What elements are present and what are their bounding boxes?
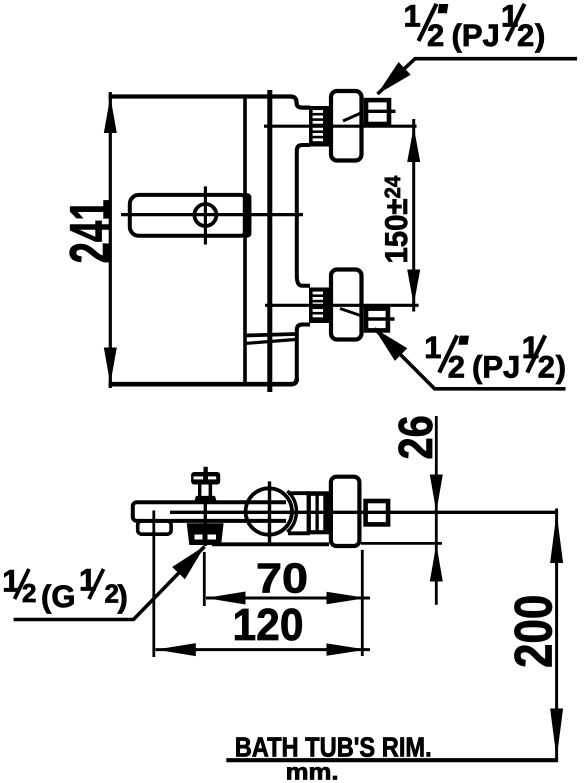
- faucet body right edge: [243, 96, 247, 384]
- svg-text:1: 1: [404, 0, 421, 34]
- svg-text:1: 1: [424, 330, 441, 365]
- handle right end cap: [243, 193, 252, 237]
- handle circle (side view): [246, 488, 292, 534]
- lower label 1/2"(PJ1/2): [424, 330, 566, 385]
- svg-text:70: 70: [256, 555, 308, 602]
- diverter axis line: [204, 501, 207, 547]
- dimension 120 line: [156, 648, 371, 651]
- lower union centerline: [265, 304, 419, 307]
- upper union lower neck: [297, 145, 310, 151]
- svg-text:2: 2: [517, 18, 534, 53]
- faucet body top edge with neck step to upper union: [109, 97, 310, 108]
- bath tub rim line: [226, 758, 557, 762]
- extension line 120 left: [152, 511, 155, 658]
- leader line G label: [14, 547, 205, 620]
- leader arrowhead lower PJ: [374, 328, 407, 361]
- handle vertical centerline (side view): [268, 481, 271, 543]
- dimension 241 top arrowhead: [104, 97, 117, 134]
- body under-profile line: [212, 542, 329, 546]
- dimension 200 line: [555, 509, 558, 763]
- handle centerline: [121, 213, 303, 216]
- svg-text:): ): [118, 579, 128, 614]
- diverter stem: [204, 467, 208, 473]
- svg-text:2: 2: [538, 350, 555, 385]
- upper union: cap body: [331, 91, 362, 161]
- dimension 26 upper arrowhead: [430, 475, 443, 513]
- svg-text:1: 1: [501, 0, 518, 34]
- svg-text:mm.: mm.: [286, 759, 339, 783]
- svg-text:200: 200: [505, 595, 564, 668]
- lower union lower neck: [297, 325, 310, 331]
- upper union hex nut: [366, 100, 389, 124]
- spout outlet step: [138, 521, 171, 534]
- svg-text:(G: (G: [41, 579, 75, 614]
- leader line upper PJ label: [378, 59, 578, 94]
- upper union chamfer line: [343, 113, 362, 122]
- dimension 70 left arrowhead: [206, 592, 246, 605]
- svg-text:(PJ: (PJ: [472, 350, 520, 385]
- svg-text:120: 120: [233, 599, 304, 650]
- handle lever (front view): [130, 195, 250, 236]
- extension line 70 left: [203, 552, 206, 606]
- lower union: upper neck: [297, 276, 310, 286]
- dimension 120 right arrowhead: [327, 643, 367, 655]
- upper union centerline: [264, 125, 417, 128]
- dimension 26 lower arrowhead: [430, 544, 443, 582]
- handle screw circle: [194, 204, 216, 226]
- faucet body bottom edge: [109, 379, 297, 385]
- label 1/2(G1/2): [2, 563, 128, 615]
- spout detail line A: [245, 334, 296, 336]
- diverter lower nut: [187, 523, 224, 545]
- leader arrowhead upper PJ: [377, 62, 411, 95]
- svg-text:1: 1: [522, 330, 539, 365]
- reference line 26 bottom: [361, 542, 442, 545]
- spout detail line B: [245, 340, 296, 344]
- svg-text:(PJ: (PJ: [452, 18, 500, 53]
- upper union: knurled ring: [309, 106, 330, 147]
- side view centerline: [170, 511, 558, 514]
- wall plate vertical line: [267, 90, 272, 392]
- leader line lower PJ label: [375, 329, 566, 389]
- diverter flange: [195, 496, 217, 501]
- lower union chamfer line: [340, 309, 362, 317]
- svg-text:2: 2: [448, 350, 465, 385]
- dimension 150 bottom arrowhead: [407, 270, 420, 306]
- lower union nut middle line: [364, 317, 395, 320]
- dimension 150+-24 line: [412, 119, 415, 312]
- svg-text:26: 26: [390, 415, 443, 459]
- svg-text:241: 241: [59, 199, 123, 263]
- dimension 241 line: [109, 92, 112, 388]
- lower union: cap body: [331, 270, 362, 340]
- leader arrowhead G label: [172, 546, 205, 579]
- spout bar body: [133, 502, 329, 521]
- handle skirt (side view): [286, 493, 310, 533]
- dimension 120 left arrowhead: [156, 643, 196, 656]
- upper union nut middle line: [364, 110, 396, 113]
- dimension 241 bottom arrowhead: [104, 348, 117, 385]
- handle screw vertical centerline: [204, 186, 207, 244]
- dimension 200 bottom arrowhead: [550, 709, 563, 759]
- supply pipe lower segment: [295, 330, 299, 382]
- handle skirt arc: [287, 491, 296, 532]
- svg-text:): ): [556, 350, 566, 385]
- side hex nut: [366, 501, 389, 524]
- svg-text:2: 2: [427, 18, 444, 53]
- diverter legs: [198, 485, 201, 497]
- dimension 26 line: [435, 416, 438, 605]
- side cap body: [331, 477, 360, 546]
- dimension 70 line: [206, 597, 370, 600]
- diverter T-cap: [191, 472, 220, 485]
- side knurled ring: [307, 491, 330, 534]
- lower union: knurled ring: [309, 288, 330, 324]
- svg-text:2: 2: [22, 578, 36, 608]
- dimension 150 top arrowhead: [407, 127, 420, 163]
- svg-text:): ): [535, 18, 545, 53]
- supply pipe upper segment: [295, 149, 299, 278]
- lower union hex nut: [366, 309, 388, 331]
- extension line right (70/120): [361, 550, 364, 656]
- dimension 200 top arrowhead: [550, 513, 563, 563]
- upper label 1/2"(PJ1/2): [404, 0, 546, 53]
- dimension 70 right arrowhead: [327, 592, 367, 604]
